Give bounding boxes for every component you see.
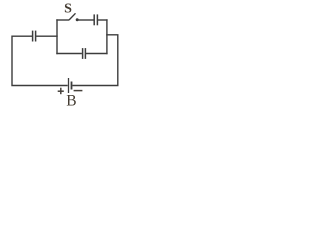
capacitor C2 left plate <box>82 48 84 59</box>
wire left entry + outer left vertical + bottom left segment <box>12 36 68 85</box>
battery B long positive plate <box>68 78 70 93</box>
wire C1 to right node <box>98 19 108 21</box>
wire jog + outer right vertical + bottom right segment <box>72 35 117 86</box>
wire parallel-section right vertical <box>106 19 108 54</box>
wire top branch to switch <box>56 19 69 21</box>
capacitor C1 left plate <box>93 14 95 25</box>
switch S arm <box>69 13 76 20</box>
wire parallel-section left vertical <box>56 19 58 54</box>
capacitor C1 right plate <box>96 14 98 25</box>
wire bottom branch right segment <box>86 53 108 55</box>
battery minus sign <box>74 90 83 92</box>
wire bottom branch left segment <box>56 53 82 55</box>
wire C3 to parallel-section left node <box>36 35 58 37</box>
switch S pivot dot <box>76 18 79 21</box>
capacitor C2 right plate <box>84 48 86 59</box>
capacitor C3 right plate <box>35 31 37 42</box>
battery plus sign <box>58 88 64 95</box>
svg-text:S: S <box>64 2 72 17</box>
wire switch dot to C1 <box>79 19 94 21</box>
battery B short negative plate <box>71 82 73 90</box>
svg-text:B: B <box>66 93 76 107</box>
capacitor C3 left plate <box>32 31 34 42</box>
